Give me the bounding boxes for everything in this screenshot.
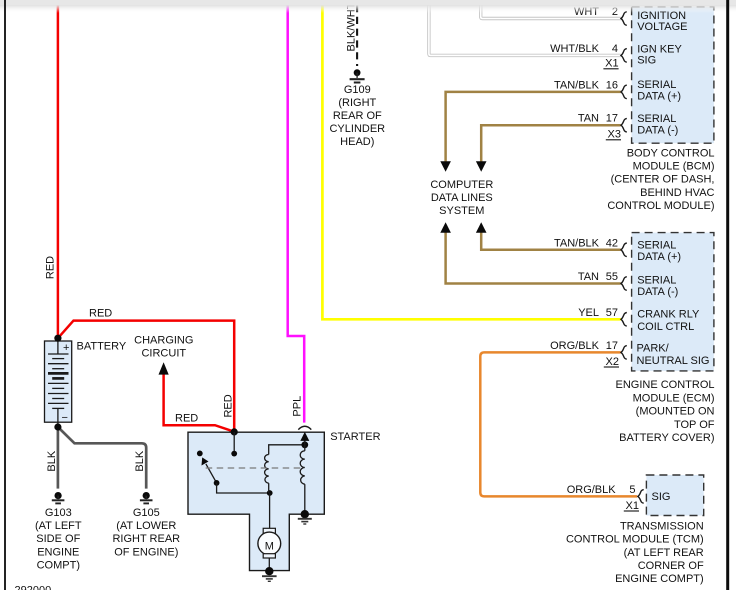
svg-text:DATA (-): DATA (-)	[637, 124, 678, 136]
label wire RED horizontal top	[89, 308, 112, 320]
label TRANSMISSION CONTROL MODULE (TCM)	[566, 520, 704, 585]
label connector X1 TCM	[624, 500, 639, 512]
svg-text:COIL CTRL: COIL CTRL	[637, 321, 694, 333]
svg-text:TOP OF: TOP OF	[674, 419, 715, 431]
svg-text:16: 16	[606, 79, 618, 91]
svg-text:OF ENGINE): OF ENGINE)	[114, 546, 178, 558]
wire TAN serial data (-) ECM pin 55	[446, 232, 621, 284]
label wire RED rotated starter	[222, 394, 234, 417]
wire WHT/BLK ign key signal BCM pin 4	[429, 4, 621, 55]
svg-text:WHT/BLK: WHT/BLK	[550, 43, 600, 55]
ground G103	[52, 492, 65, 503]
svg-text:MODULE (ECM): MODULE (ECM)	[633, 392, 715, 404]
svg-text:CONTROL MODULE): CONTROL MODULE)	[607, 200, 714, 212]
svg-text:RED: RED	[89, 308, 112, 320]
svg-text:SIG: SIG	[637, 55, 656, 67]
label pin number 5 TCM	[629, 484, 635, 496]
label CHARGING CIRCUIT	[134, 334, 193, 359]
svg-text:X1: X1	[626, 500, 639, 512]
svg-text:(MOUNTED ON: (MOUNTED ON	[636, 406, 715, 418]
label pin number 17	[606, 113, 618, 125]
svg-text:RED: RED	[175, 413, 198, 425]
arrow computer data lines down-right	[476, 161, 487, 172]
svg-text:55: 55	[606, 271, 618, 283]
wire RED battery to starter	[58, 321, 234, 432]
svg-text:DATA (+): DATA (+)	[637, 251, 681, 263]
svg-text:VOLTAGE: VOLTAGE	[637, 21, 687, 33]
wire RED battery feed vertical	[57, 4, 60, 338]
ground starter solenoid internal	[298, 510, 312, 524]
svg-text:CRANK RLY: CRANK RLY	[637, 309, 700, 321]
label sheet number 292000	[15, 585, 52, 590]
svg-text:TAN/BLK: TAN/BLK	[554, 237, 600, 249]
label wire TAN/BLK 16	[554, 79, 600, 91]
connector pin 2 arc BCM	[621, 12, 627, 26]
label G109 ground location	[329, 84, 385, 148]
inductor solenoid pull-in winding	[265, 445, 305, 493]
svg-text:42: 42	[606, 237, 618, 249]
wire YEL crank relay coil control	[322, 4, 620, 319]
svg-text:IGN KEY: IGN KEY	[637, 43, 682, 55]
svg-text:SERIAL: SERIAL	[637, 113, 676, 125]
svg-text:X2: X2	[606, 356, 619, 368]
svg-text:CIRCUIT: CIRCUIT	[141, 348, 186, 360]
label pin number 17 ECM	[606, 340, 618, 352]
svg-text:TAN/BLK: TAN/BLK	[554, 79, 600, 91]
connector starter PPL terminal arc	[298, 426, 311, 429]
svg-text:YEL: YEL	[578, 307, 599, 319]
svg-text:G105: G105	[133, 507, 160, 519]
svg-text:BEHIND HVAC: BEHIND HVAC	[640, 187, 714, 199]
svg-text:TRANSMISSION: TRANSMISSION	[620, 520, 704, 532]
svg-text:(AT LEFT REAR: (AT LEFT REAR	[624, 547, 704, 559]
label wire BLK rotated right	[134, 450, 146, 471]
svg-text:DATA (-): DATA (-)	[637, 286, 678, 298]
svg-text:17: 17	[606, 340, 618, 352]
ground starter motor	[262, 567, 277, 581]
module U1 BCM body control module box	[632, 7, 714, 143]
svg-text:CHARGING: CHARGING	[134, 334, 193, 346]
svg-text:SIDE OF: SIDE OF	[36, 533, 80, 545]
label ENGINE CONTROL MODULE (ECM)	[615, 379, 714, 444]
label connector X2 ECM	[604, 356, 619, 368]
svg-text:CYLINDER: CYLINDER	[329, 123, 385, 135]
svg-text:57: 57	[606, 307, 618, 319]
label pin number 4	[612, 43, 618, 55]
svg-text:SYSTEM: SYSTEM	[439, 205, 484, 217]
svg-text:X3: X3	[608, 129, 621, 141]
ground G105	[140, 492, 153, 503]
label TCM pin function SIG	[652, 491, 671, 503]
svg-text:ENGINE: ENGINE	[37, 546, 79, 558]
svg-text:292000: 292000	[15, 585, 52, 590]
wire TAN/BLK serial data (+) BCM pin 16	[446, 92, 621, 164]
svg-text:RIGHT REAR: RIGHT REAR	[112, 533, 180, 545]
switch solenoid contact blade	[202, 457, 270, 493]
node COMPUTER DATA LINES SYSTEM	[430, 179, 493, 217]
module U3 TCM transmission control module box	[646, 475, 703, 516]
arrow computer data lines up-right	[476, 222, 487, 233]
wire BLK battery negative branch to G105	[58, 427, 146, 489]
label pin number 57	[606, 307, 618, 319]
node solenoid windings top	[301, 441, 308, 448]
svg-text:M: M	[265, 540, 274, 552]
connector pin 16 arc BCM	[621, 85, 627, 99]
wire starter B+ stub to contact	[233, 432, 235, 454]
svg-text:ENGINE CONTROL: ENGINE CONTROL	[615, 379, 714, 391]
connector pin 17 arc BCM	[621, 118, 627, 132]
svg-text:BATTERY: BATTERY	[77, 341, 127, 353]
svg-text:X1: X1	[605, 58, 618, 70]
node solenoid contact fixed left	[197, 451, 203, 457]
label ECM pin functions	[637, 239, 710, 366]
wire BLK/WHT dashed to G109	[356, 5, 358, 66]
svg-text:BLK: BLK	[134, 450, 146, 471]
wire WHT ignition voltage BCM pin 2	[481, 4, 621, 19]
svg-text:COMPUTER: COMPUTER	[430, 179, 493, 191]
label BCM pin functions	[637, 10, 687, 137]
battery B1 body	[45, 341, 72, 427]
svg-text:BLK: BLK	[46, 450, 58, 471]
node solenoid contact fixed right	[231, 451, 237, 457]
label G105 ground location	[112, 507, 180, 558]
ground G109	[350, 69, 365, 82]
svg-text:5: 5	[629, 484, 635, 496]
svg-text:17: 17	[606, 113, 618, 125]
inductor solenoid hold-in winding	[300, 445, 305, 514]
BOXES-GROUP	[621, 7, 714, 516]
svg-text:SIG: SIG	[652, 491, 671, 503]
wire ORG/BLK park-neutral signal ECM to TCM	[480, 352, 637, 496]
svg-text:+: +	[63, 342, 69, 354]
svg-text:ENGINE COMPT): ENGINE COMPT)	[615, 573, 704, 585]
connector pin 5 arc TCM	[638, 490, 644, 504]
label wire BLK rotated left	[46, 450, 58, 471]
module U2 ECM engine control module box	[632, 233, 714, 371]
COMPONENTS-GROUP	[45, 69, 487, 581]
svg-text:MODULE (BCM): MODULE (BCM)	[633, 161, 715, 173]
arrow computer data lines up-left	[440, 222, 451, 233]
motor M starter motor	[258, 493, 281, 571]
right page border	[726, 0, 729, 590]
wire RED charging circuit branch	[164, 373, 235, 432]
label BODY CONTROL MODULE (BCM)	[607, 147, 714, 212]
svg-text:−: −	[62, 412, 68, 424]
svg-text:PPL: PPL	[291, 396, 303, 417]
svg-text:SERIAL: SERIAL	[637, 239, 676, 251]
starter assembly body	[188, 432, 324, 570]
label wire PPL rotated	[291, 396, 303, 417]
label wire WHT/BLK	[550, 43, 600, 55]
label wire TAN/BLK 42	[554, 237, 600, 249]
arrow computer data lines down-left	[440, 161, 451, 172]
label BATTERY	[77, 341, 127, 353]
label wire BLK/WHT rotated	[346, 2, 358, 51]
svg-text:(RIGHT: (RIGHT	[338, 97, 376, 109]
connector pin 4 arc BCM	[621, 49, 627, 63]
svg-text:BATTERY COVER): BATTERY COVER)	[619, 432, 714, 444]
svg-text:DATA (+): DATA (+)	[637, 90, 681, 102]
svg-text:RED: RED	[45, 256, 57, 279]
svg-text:STARTER: STARTER	[330, 431, 380, 443]
label wire ORG/BLK TCM	[567, 484, 617, 496]
connector pin 57 arc ECM	[621, 313, 627, 327]
wire TAN/BLK serial data (+) ECM pin 42	[481, 232, 621, 250]
label wire YEL	[578, 307, 599, 319]
connector pin 55 arc ECM	[621, 277, 627, 291]
arrow starter solenoid terminal	[300, 432, 309, 445]
label connector X3 BCM	[606, 129, 621, 141]
node battery negative terminal	[54, 423, 61, 430]
WIRES-GROUP	[58, 4, 637, 496]
wire PPL starter solenoid feed	[288, 4, 305, 423]
svg-text:CORNER OF: CORNER OF	[638, 560, 704, 572]
svg-text:(CENTER OF DASH,: (CENTER OF DASH,	[611, 174, 715, 186]
label wire WHT	[574, 6, 599, 18]
svg-text:SERIAL: SERIAL	[637, 274, 676, 286]
dashed mechanical linkage line	[206, 467, 301, 469]
svg-text:BODY CONTROL: BODY CONTROL	[627, 147, 715, 159]
node battery positive terminal	[54, 335, 61, 342]
charging circuit arrow	[159, 362, 169, 374]
svg-text:TAN: TAN	[578, 271, 599, 283]
svg-text:SERIAL: SERIAL	[637, 79, 676, 91]
label pin number 2	[612, 6, 618, 18]
label wire TAN 17	[578, 113, 599, 125]
connector pin 17 arc ECM	[621, 346, 627, 360]
svg-text:(AT LOWER: (AT LOWER	[116, 520, 176, 532]
svg-text:DATA LINES: DATA LINES	[431, 192, 493, 204]
svg-text:G109: G109	[344, 84, 371, 96]
node solenoid winding to motor junction	[267, 490, 273, 496]
label wire TAN 55	[578, 271, 599, 283]
label STARTER	[330, 431, 380, 443]
label wire ORG/BLK ECM	[550, 340, 600, 352]
svg-text:PARK/: PARK/	[637, 343, 670, 355]
svg-text:TAN: TAN	[578, 113, 599, 125]
svg-text:G103: G103	[45, 507, 72, 519]
label G103 ground location	[35, 507, 82, 571]
svg-text:ORG/BLK: ORG/BLK	[567, 484, 617, 496]
svg-text:COMPT): COMPT)	[37, 559, 80, 571]
svg-text:ORG/BLK: ORG/BLK	[550, 340, 600, 352]
svg-text:REAR OF: REAR OF	[333, 110, 382, 122]
top toolbar strip	[0, 0, 736, 13]
node starter B+ junction	[231, 428, 238, 435]
svg-text:RED: RED	[222, 394, 234, 417]
wire TAN serial data (-) BCM pin 17	[481, 125, 621, 163]
svg-text:NEUTRAL SIG: NEUTRAL SIG	[637, 355, 710, 367]
label connector X1 BCM	[603, 58, 618, 70]
svg-text:CONTROL MODULE (TCM): CONTROL MODULE (TCM)	[566, 534, 704, 546]
left page border	[4, 0, 6, 590]
label pin number 42	[606, 237, 618, 249]
svg-text:(AT LEFT: (AT LEFT	[35, 520, 82, 532]
connector pin 42 arc ECM	[621, 243, 627, 257]
label wire RED horizontal lower	[175, 413, 198, 425]
wire BLK battery negative to G103	[57, 427, 60, 489]
label pin number 55	[606, 271, 618, 283]
svg-text:4: 4	[612, 43, 618, 55]
svg-text:HEAD): HEAD)	[340, 136, 374, 148]
label pin number 16	[606, 79, 618, 91]
label wire RED rotated left	[45, 256, 57, 279]
